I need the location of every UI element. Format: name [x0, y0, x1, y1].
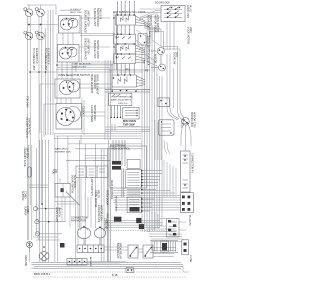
- svg-text:SURFACE UNIT: SURFACE UNIT: [93, 40, 96, 59]
- svg-text:SUPPLY: SUPPLY: [24, 206, 27, 216]
- svg-text:N.O.: N.O.: [175, 52, 178, 57]
- svg-text:TOD 240V: TOD 240V: [26, 96, 29, 108]
- svg-text:DOOR SWITCH: DOOR SWITCH: [71, 175, 74, 193]
- svg-text:CORD: CORD: [24, 191, 27, 199]
- svg-text:N.O.: N.O.: [143, 60, 145, 65]
- svg-text:MOTOR 120V: MOTOR 120V: [193, 112, 196, 128]
- svg-text:240V N.C.: 240V N.C.: [118, 103, 128, 105]
- svg-text:CONNECTOR P1: CONNECTOR P1: [191, 153, 194, 173]
- svg-text:SUPPLY: SUPPLY: [21, 191, 24, 201]
- svg-text:SINGLE SURFACE: SINGLE SURFACE: [84, 38, 87, 60]
- svg-text:SURFACE UNIT: SURFACE UNIT: [93, 8, 96, 27]
- svg-text:BAKE RELAY: BAKE RELAY: [116, 243, 119, 259]
- svg-text:BAKE ELEMENT: BAKE ELEMENT: [90, 75, 93, 95]
- svg-text:3000W 240V: 3000W 240V: [93, 75, 96, 90]
- svg-text:BLOWER: BLOWER: [89, 257, 91, 267]
- svg-text:TOD: TOD: [52, 169, 55, 174]
- svg-text:ELEMENT L.F.: ELEMENT L.F.: [35, 48, 38, 65]
- svg-text:8 18: 8 18: [112, 273, 118, 277]
- svg-text:RELAY: RELAY: [97, 190, 100, 198]
- svg-text:UNLOCK: UNLOCK: [147, 55, 150, 66]
- svg-text:GROUND: GROUND: [24, 255, 27, 266]
- svg-text:OVEN DOOR: OVEN DOOR: [106, 190, 109, 205]
- svg-text:DOOR LOCK: DOOR LOCK: [190, 112, 193, 127]
- svg-text:CONV MOTOR: CONV MOTOR: [94, 190, 97, 207]
- svg-text:SWITCH 1200W: SWITCH 1200W: [96, 40, 99, 59]
- svg-text:BAKE 2600W BROIL: BAKE 2600W BROIL: [111, 99, 132, 102]
- svg-text:240: 240: [54, 169, 57, 174]
- svg-text:TOD 240V N.C.: TOD 240V N.C.: [28, 118, 31, 136]
- svg-text:SWITCH: SWITCH: [58, 207, 61, 217]
- svg-text:BROIL RELAY: BROIL RELAY: [119, 243, 122, 259]
- svg-text:MOTOR 120V: MOTOR 120V: [100, 205, 103, 221]
- svg-text:PP3: PP3: [125, 69, 130, 72]
- svg-text:SWITCH 2400W: SWITCH 2400W: [96, 8, 99, 27]
- svg-text:15A 120V: 15A 120V: [26, 148, 29, 159]
- svg-text:TMP 350F: TMP 350F: [123, 122, 135, 126]
- svg-text:OVEN THERMOSTAT: OVEN THERMOSTAT: [111, 96, 133, 99]
- svg-text:L1 240V L2: L1 240V L2: [70, 9, 82, 11]
- svg-text:FUSE: FUSE: [189, 256, 192, 263]
- svg-text:OVEN SELECTOR: OVEN SELECTOR: [72, 64, 91, 66]
- svg-text:OVEN SELECTOR SWITCH: OVEN SELECTOR SWITCH: [58, 74, 90, 77]
- svg-text:LOCK UNIT: LOCK UNIT: [186, 5, 189, 19]
- svg-text:PLUG P2: PLUG P2: [188, 215, 191, 226]
- svg-text:CORD: CORD: [26, 206, 29, 214]
- svg-text:BRN 208 B.L.: BRN 208 B.L.: [34, 272, 51, 276]
- svg-text:BROIL ELEMENT: BROIL ELEMENT: [96, 75, 99, 95]
- svg-text:LOCK MOTOR: LOCK MOTOR: [187, 27, 190, 44]
- svg-text:ELEMENT 240V: ELEMENT 240V: [55, 152, 72, 154]
- svg-text:BAKE BROIL: BAKE BROIL: [55, 148, 69, 151]
- svg-text:TO SURFACE UNIT: TO SURFACE UNIT: [44, 48, 47, 71]
- svg-text:UNIT SWITCH: UNIT SWITCH: [86, 38, 89, 55]
- svg-text:FAN MOTOR: FAN MOTOR: [71, 219, 86, 222]
- svg-text:MOTOR 240V: MOTOR 240V: [93, 105, 96, 121]
- svg-text:CLOCK TIMER: CLOCK TIMER: [90, 105, 93, 122]
- svg-text:TO SURFACE UNIT: TO SURFACE UNIT: [32, 48, 35, 71]
- svg-text:240V 8 IN: 240V 8 IN: [99, 8, 102, 19]
- svg-text:OVEN CONTROL: OVEN CONTROL: [110, 147, 131, 150]
- svg-text:DOOR SW: DOOR SW: [173, 52, 176, 65]
- svg-text:RELAY BOARD: RELAY BOARD: [115, 196, 118, 212]
- svg-text:DOOR LOCK: DOOR LOCK: [147, 15, 150, 30]
- svg-text:HOT SURFACE IND LIGHTS: HOT SURFACE IND LIGHTS: [113, 11, 146, 14]
- svg-text:MAIN CONTROL: MAIN CONTROL: [110, 180, 113, 200]
- svg-text:HI-LIMIT SWITCH: HI-LIMIT SWITCH: [25, 118, 28, 138]
- svg-text:PLUG: PLUG: [189, 5, 192, 12]
- svg-text:LIGHT SWITCH: LIGHT SWITCH: [90, 178, 93, 196]
- svg-text:COOLING: COOLING: [104, 218, 107, 230]
- svg-text:SWITCH: SWITCH: [149, 15, 152, 25]
- svg-text:CLOCK: CLOCK: [82, 106, 85, 115]
- svg-text:LATCH: LATCH: [148, 31, 151, 38]
- svg-text:MOTOR DOOR: MOTOR DOOR: [154, 15, 157, 33]
- svg-text:NEUT 120V: NEUT 120V: [70, 12, 82, 14]
- svg-text:MOTOR: MOTOR: [154, 54, 157, 63]
- svg-text:CERAMIC FUSE: CERAMIC FUSE: [23, 148, 26, 167]
- svg-text:OVEN LIGHT: OVEN LIGHT: [55, 207, 58, 223]
- svg-text:UNIT SWITCH: UNIT SWITCH: [86, 10, 89, 27]
- svg-text:DOOR LOCK: DOOR LOCK: [155, 2, 170, 5]
- svg-text:ELEMENT R.F.: ELEMENT R.F.: [46, 48, 49, 65]
- svg-text:SWITCH 240V: SWITCH 240V: [72, 67, 87, 69]
- svg-text:LATCH SWITCH: LATCH SWITCH: [147, 36, 150, 55]
- svg-text:N.O. HOLD: N.O. HOLD: [73, 175, 76, 188]
- svg-text:LOCK SWITCH: LOCK SWITCH: [156, 15, 159, 33]
- svg-text:DOUBLE SURFACE: DOUBLE SURFACE: [84, 10, 87, 33]
- svg-text:240V: 240V: [189, 27, 192, 33]
- svg-text:COOLING FAN: COOLING FAN: [97, 205, 100, 222]
- svg-text:MIN OVEN: MIN OVEN: [123, 119, 136, 123]
